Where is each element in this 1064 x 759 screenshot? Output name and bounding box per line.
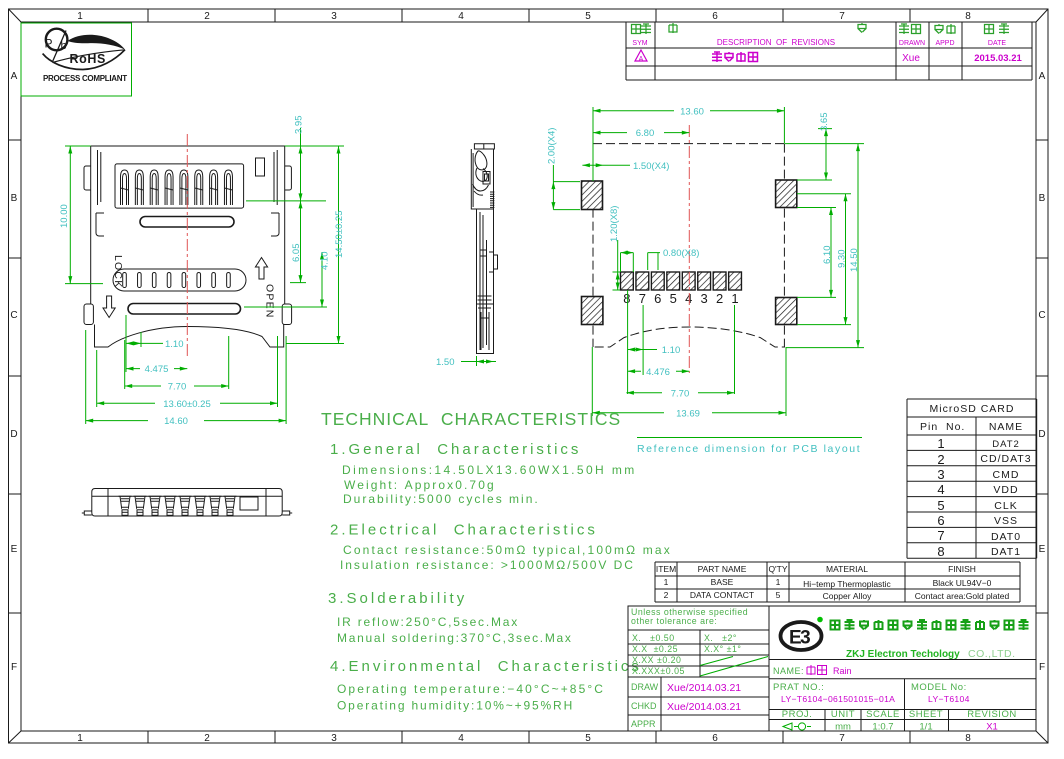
svg-text:REVISION: REVISION	[967, 709, 1016, 720]
left solder tab	[84, 304, 93, 325]
side top cap	[474, 144, 494, 149]
svg-text:DAT1: DAT1	[991, 546, 1021, 558]
svg-text:Insulation resistance: >1000MΩ: Insulation resistance: >1000MΩ/500V DC	[340, 558, 635, 572]
side crimp hatch	[490, 192, 494, 207]
svg-text:Pin No.: Pin No.	[920, 421, 965, 433]
svg-text:7.70: 7.70	[671, 388, 690, 399]
svg-text:LY−T6104: LY−T6104	[928, 694, 970, 704]
svg-text:A: A	[639, 56, 644, 63]
small window top right	[256, 158, 265, 176]
svg-text:b: b	[61, 40, 67, 52]
svg-text:6.05: 6.05	[291, 244, 302, 263]
svg-text:5: 5	[585, 11, 591, 22]
svg-text:13.60: 13.60	[680, 106, 704, 117]
RoHS logo upper lid line	[53, 50, 125, 63]
svg-text:1:0.7: 1:0.7	[872, 722, 893, 733]
svg-text:A: A	[11, 71, 18, 82]
svg-text:VSS: VSS	[994, 515, 1018, 527]
P/b circle	[46, 29, 68, 51]
svg-text:P: P	[45, 37, 53, 51]
svg-text:Operating humidity:10%~+95%RH: Operating humidity:10%~+95%RH	[337, 699, 574, 713]
svg-text:2015.03.21: 2015.03.21	[974, 53, 1022, 64]
svg-text:14.50±0.25: 14.50±0.25	[334, 211, 345, 258]
svg-text:3.Solderability: 3.Solderability	[328, 590, 467, 607]
pad top-right	[776, 180, 797, 208]
dim 1.20(X8)	[609, 206, 620, 290]
svg-text:BASE: BASE	[711, 577, 734, 587]
svg-text:1: 1	[776, 577, 781, 587]
svg-text:C: C	[1038, 310, 1045, 321]
dim 3.65	[797, 113, 832, 181]
pin numbers column	[937, 436, 944, 559]
proj/unit/scale headers	[782, 709, 1017, 720]
svg-text:DAT0: DAT0	[991, 531, 1021, 543]
company chinese name	[831, 620, 1029, 630]
revision table grid	[626, 22, 1032, 80]
dim 13.60±0.25	[97, 399, 278, 410]
dim 1.50(X4)	[582, 161, 669, 172]
svg-text:E: E	[1039, 544, 1046, 555]
dim 14.60	[86, 416, 286, 427]
svg-text:4.10: 4.10	[320, 252, 331, 271]
revision triangle A	[635, 50, 647, 61]
parts table row 1	[664, 577, 992, 589]
pcb outline dashed	[593, 144, 784, 347]
side profile outline	[471, 149, 493, 354]
dim 10.00	[59, 146, 103, 284]
header english labels	[632, 38, 1006, 47]
dim 1.10 pcb	[628, 290, 681, 394]
svg-text:7: 7	[937, 528, 944, 543]
svg-text:3.65: 3.65	[819, 113, 830, 132]
bottom view contacts x8	[119, 496, 132, 515]
svg-text:DRAWN: DRAWN	[899, 40, 925, 47]
pin names column	[980, 439, 1031, 558]
svg-text:CLK: CLK	[994, 500, 1017, 512]
svg-text:5: 5	[670, 291, 677, 306]
dim 7.70 pcb	[626, 305, 734, 399]
svg-text:2: 2	[204, 11, 210, 22]
SDTABLE	[907, 399, 1037, 559]
ruler letters left	[10, 71, 17, 673]
svg-text:Rain: Rain	[833, 666, 852, 676]
row ticks right	[1036, 140, 1048, 613]
draw/chkd values	[667, 682, 741, 713]
open arrow up	[255, 258, 267, 280]
svg-text:2: 2	[664, 590, 669, 600]
pcb card edge dashed	[595, 327, 785, 347]
svg-text:Hi−temp Thermoplastic: Hi−temp Thermoplastic	[803, 579, 891, 589]
svg-text:Operating temperature:−40°C~+8: Operating temperature:−40°C~+85°C	[337, 682, 605, 696]
svg-text:APPR: APPR	[631, 719, 656, 729]
dim 0.80(X8)	[621, 248, 700, 272]
parts table header	[656, 564, 976, 574]
title block outer	[628, 606, 1036, 731]
svg-text:1: 1	[664, 577, 669, 587]
svg-text:Copper Alloy: Copper Alloy	[823, 591, 872, 601]
TECHTEXT	[321, 409, 672, 713]
svg-text:X. ±0.50: X. ±0.50	[632, 633, 675, 643]
PARTSTABLE	[655, 562, 1020, 602]
svg-text:6: 6	[712, 11, 718, 22]
left spring contact details	[96, 150, 104, 236]
bottom extension lines	[86, 315, 286, 424]
pad bottom-left	[582, 297, 603, 325]
contact pads x8	[621, 272, 742, 290]
svg-text:F: F	[1039, 662, 1045, 673]
svg-text:C: C	[10, 310, 17, 321]
svg-text:1.10: 1.10	[662, 345, 681, 356]
microsd table grid	[907, 399, 1037, 558]
svg-text:1: 1	[731, 291, 738, 306]
bottom view end leads	[82, 511, 292, 515]
svg-text:E3: E3	[789, 628, 810, 649]
svg-text:1.50(X4): 1.50(X4)	[633, 161, 669, 172]
svg-text:TECHNICAL CHARACTERISTICS: TECHNICAL CHARACTERISTICS	[321, 409, 621, 429]
svg-text:CO.,LTD.: CO.,LTD.	[968, 648, 1016, 660]
row ticks left	[9, 140, 22, 613]
svg-text:PART NAME: PART NAME	[698, 564, 747, 574]
svg-text:OPEN: OPEN	[264, 284, 276, 319]
svg-text:7: 7	[839, 733, 845, 744]
side internal verticals	[473, 153, 486, 350]
dim 1.10	[126, 339, 184, 350]
svg-text:other tolerance are:: other tolerance are:	[631, 616, 717, 626]
lock arrow down	[103, 296, 115, 318]
dim 13.60 pcb	[593, 106, 784, 181]
svg-text:F: F	[11, 662, 17, 673]
svg-text:6: 6	[654, 291, 661, 306]
svg-text:MicroSD CARD: MicroSD CARD	[930, 403, 1015, 415]
side latch box	[483, 172, 490, 185]
svg-text:CMD: CMD	[993, 469, 1020, 481]
svg-text:PROCESS COMPLIANT: PROCESS COMPLIANT	[43, 74, 127, 83]
dim 3.95	[246, 116, 344, 201]
svg-text:Manual soldering:370°C,3sec.Ma: Manual soldering:370°C,3sec.Max	[337, 631, 573, 645]
dim 14.50	[784, 144, 864, 348]
svg-text:8: 8	[965, 11, 971, 22]
svg-text:DAT2: DAT2	[992, 439, 1020, 450]
pcb centerline	[688, 125, 690, 373]
oval recess	[113, 269, 246, 291]
projection symbol	[783, 723, 798, 730]
svg-text:4: 4	[458, 11, 464, 22]
svg-text:DATA CONTACT: DATA CONTACT	[690, 590, 754, 600]
svg-text:NAME:: NAME:	[773, 666, 804, 676]
svg-text:A: A	[1039, 71, 1046, 82]
svg-text:1.10: 1.10	[165, 339, 184, 350]
svg-text:CD/DAT3: CD/DAT3	[980, 453, 1031, 465]
side mid right notch	[489, 252, 498, 272]
dim 7.70	[125, 382, 229, 393]
right solder tab	[282, 304, 291, 325]
unit/scale/sheet values	[835, 722, 933, 733]
svg-text:2: 2	[716, 291, 723, 306]
svg-text:7: 7	[839, 11, 845, 22]
svg-text:SYM: SYM	[632, 40, 647, 47]
svg-text:4.Environmental Characteristi: 4.Environmental Characteristics	[330, 658, 642, 675]
BOTTOMVIEW	[82, 489, 292, 517]
svg-text:Xue/2014.03.21: Xue/2014.03.21	[667, 682, 741, 694]
svg-text:LOCK: LOCK	[112, 255, 124, 288]
svg-text:3: 3	[331, 11, 337, 22]
svg-text:1.50: 1.50	[436, 357, 455, 368]
pad top-left	[582, 181, 603, 210]
svg-text:X. ±2°: X. ±2°	[704, 633, 737, 643]
svg-text:VDD: VDD	[993, 484, 1018, 496]
upper slot (stadium)	[140, 217, 234, 228]
side lower details	[477, 296, 494, 350]
svg-text:DRAW: DRAW	[631, 682, 659, 692]
svg-text:6.10: 6.10	[822, 246, 833, 265]
ruler numbers top	[77, 11, 971, 22]
svg-text:UNIT: UNIT	[831, 709, 855, 720]
svg-text:Xue/2014.03.21: Xue/2014.03.21	[667, 701, 741, 713]
parts table grid	[655, 562, 1020, 602]
TITLEBLOCK	[628, 606, 1036, 733]
svg-text:6: 6	[937, 513, 944, 528]
svg-text:B: B	[11, 193, 18, 204]
E3 logo	[781, 622, 822, 650]
svg-text:X.XX ±0.20: X.XX ±0.20	[632, 655, 681, 665]
svg-text:Contact resistance:50mΩ typica: Contact resistance:50mΩ typical,100mΩ ma…	[343, 543, 672, 557]
svg-text:PROJ.: PROJ.	[782, 709, 812, 720]
svg-text:6.80: 6.80	[636, 128, 655, 139]
svg-text:MODEL No:: MODEL No:	[911, 682, 967, 693]
svg-text:MATERIAL: MATERIAL	[826, 564, 868, 574]
FRONTVIEW	[59, 116, 345, 428]
dim 14.50±0.25	[286, 146, 345, 344]
svg-text:Contact area:Gold plated: Contact area:Gold plated	[915, 591, 1010, 601]
svg-text:X.X° ±1°: X.X° ±1°	[704, 644, 741, 654]
svg-text:13.60±0.25: 13.60±0.25	[163, 399, 210, 410]
svg-text:2: 2	[204, 733, 210, 744]
bottom view inner lip	[92, 489, 282, 517]
dim 1.50	[436, 356, 496, 368]
svg-text:1.General Characteristics: 1.General Characteristics	[330, 441, 581, 458]
svg-text:SCALE: SCALE	[866, 709, 900, 720]
centerline	[186, 134, 188, 358]
pad numbers	[623, 291, 738, 306]
side lower loop	[476, 168, 487, 181]
svg-text:ITEM: ITEM	[656, 564, 676, 574]
dim 13.69	[592, 347, 786, 419]
side teardrop spring	[475, 151, 487, 170]
header chinese labels	[632, 23, 1010, 34]
svg-text:X.X ±0.25: X.X ±0.25	[632, 644, 678, 654]
svg-text:7: 7	[639, 291, 646, 306]
svg-text:X1: X1	[986, 722, 998, 733]
svg-text:ZKJ Electron Techology: ZKJ Electron Techology	[846, 649, 960, 660]
svg-text:1: 1	[937, 436, 944, 451]
RoHS logo box	[21, 23, 132, 96]
right spring contact details	[271, 150, 279, 236]
ruler numbers bottom	[77, 733, 971, 744]
svg-text:Q'TY: Q'TY	[768, 564, 787, 574]
svg-text:1: 1	[77, 733, 83, 744]
RoHS logo swoosh crescent	[68, 35, 126, 50]
svg-text:FINISH: FINISH	[948, 564, 976, 574]
svg-text:2.00(X4): 2.00(X4)	[547, 128, 558, 164]
svg-text:Xue: Xue	[902, 53, 920, 64]
svg-text:IR reflow:250°C,5sec.Max: IR reflow:250°C,5sec.Max	[337, 615, 519, 629]
svg-text:APPD: APPD	[935, 40, 954, 47]
svg-text:mm: mm	[835, 722, 851, 733]
svg-text:8: 8	[965, 733, 971, 744]
svg-text:13.69: 13.69	[676, 408, 700, 419]
svg-text:5: 5	[937, 498, 944, 513]
svg-text:9.30: 9.30	[837, 250, 848, 269]
REVTABLE	[626, 22, 1032, 80]
svg-text:4.475: 4.475	[145, 364, 169, 375]
svg-text:14.50: 14.50	[849, 248, 860, 272]
svg-text:7.70: 7.70	[168, 382, 187, 393]
tolerance values	[632, 633, 741, 676]
svg-text:Weight: Approx0.70g: Weight: Approx0.70g	[344, 478, 496, 492]
svg-text:RoHS: RoHS	[70, 52, 106, 66]
svg-text:8: 8	[623, 291, 630, 306]
svg-text:5: 5	[776, 590, 781, 600]
draw/chkd/appr labels	[631, 682, 659, 729]
svg-text:14.60: 14.60	[164, 416, 188, 427]
svg-text:PRAT NO.:: PRAT NO.:	[773, 682, 824, 693]
contact fingers x8	[121, 170, 129, 205]
svg-text:D: D	[10, 429, 17, 440]
svg-text:1/1: 1/1	[919, 722, 932, 733]
title block grid	[628, 606, 1036, 731]
svg-text:4: 4	[937, 482, 944, 497]
PCBVIEW	[547, 106, 865, 455]
RoHS logo eye bottom	[43, 50, 125, 70]
pad bottom-right	[776, 298, 797, 325]
svg-text:LY−T6104−061501015−01A: LY−T6104−061501015−01A	[781, 694, 895, 704]
svg-text:SHEET: SHEET	[909, 709, 943, 720]
reference note underline	[637, 437, 862, 439]
svg-text:Black UL94V−0: Black UL94V−0	[933, 578, 992, 588]
right edge bump	[285, 166, 292, 190]
svg-text:D: D	[1038, 429, 1045, 440]
ruler letters right	[1038, 71, 1045, 673]
svg-text:2: 2	[937, 452, 944, 467]
svg-text:1: 1	[77, 11, 83, 22]
svg-text:NAME: NAME	[989, 421, 1023, 433]
dim 2.00(X4)	[547, 128, 581, 210]
side hook bottom	[473, 184, 489, 195]
tolerance note	[631, 607, 748, 626]
svg-text:5: 5	[585, 733, 591, 744]
bottom view body	[92, 489, 282, 517]
dim 4.475	[126, 364, 187, 375]
svg-text:0.80(X8): 0.80(X8)	[663, 248, 699, 259]
svg-text:Dimensions:14.50LX13.60WX1.50H: Dimensions:14.50LX13.60WX1.50H mm	[342, 463, 637, 477]
svg-text:3: 3	[331, 733, 337, 744]
SIDEVIEW	[436, 144, 498, 368]
svg-text:1.20(X8): 1.20(X8)	[609, 206, 620, 242]
svg-text:DATE: DATE	[988, 40, 1006, 47]
left edge bump	[84, 166, 91, 190]
svg-text:2.Electrical Characteristics: 2.Electrical Characteristics	[330, 522, 598, 539]
svg-text:3: 3	[701, 291, 708, 306]
tolerance slash cell	[700, 657, 768, 677]
svg-text:3.95: 3.95	[294, 116, 305, 135]
lower slot (stadium)	[128, 304, 241, 315]
dim 6.05	[290, 201, 306, 283]
dim 9.30	[797, 194, 851, 325]
svg-text:4.476: 4.476	[646, 367, 670, 378]
svg-text:3: 3	[937, 467, 944, 482]
column ticks bottom	[148, 731, 910, 743]
svg-text:6: 6	[712, 733, 718, 744]
ROHS	[21, 23, 132, 96]
svg-text:10.00: 10.00	[59, 204, 70, 228]
svg-text:B: B	[1039, 193, 1046, 204]
bottom view right block	[240, 497, 258, 510]
svg-text:4: 4	[458, 733, 464, 744]
parts table row 2	[664, 590, 1010, 601]
pin housing box	[115, 164, 244, 208]
svg-text:4: 4	[685, 291, 692, 306]
svg-text:DESCRIPTION OF REVISIONS: DESCRIPTION OF REVISIONS	[717, 38, 835, 47]
svg-text:E: E	[11, 544, 18, 555]
svg-text:8: 8	[937, 544, 944, 559]
column ticks top	[148, 9, 910, 22]
dim 4.476	[628, 367, 690, 378]
svg-text:X.XXX±0.05: X.XXX±0.05	[632, 666, 685, 676]
svg-text:Durability:5000 cycles min.: Durability:5000 cycles min.	[343, 492, 540, 506]
dim 6.10	[797, 208, 836, 298]
svg-text:CHKD: CHKD	[631, 701, 657, 711]
oval slots x8	[123, 273, 231, 288]
connector body outline	[91, 146, 285, 347]
revision row 1 text 正式发行	[712, 52, 758, 62]
dim 6.80	[593, 128, 689, 139]
svg-text:Reference dimension for PCB la: Reference dimension for PCB layout	[637, 443, 861, 455]
dim 4.10	[244, 252, 331, 308]
